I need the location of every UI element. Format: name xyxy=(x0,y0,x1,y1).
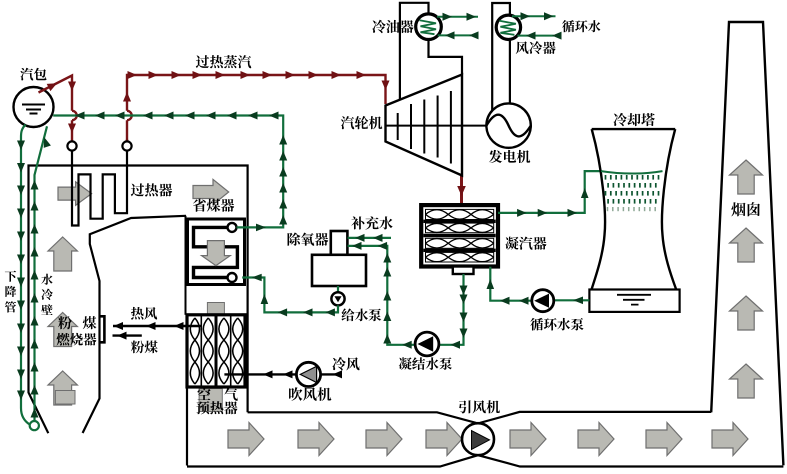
label steam drum xyxy=(20,68,46,81)
riser / water wall pipe (green) xyxy=(35,126,48,421)
label downcomer (vertical) xyxy=(5,271,16,313)
flue gas arrow furnace 2 (behind burner labels) xyxy=(48,313,77,347)
label cooling tower xyxy=(613,113,654,126)
condensate line to deaerator xyxy=(348,246,464,345)
coal line to burner xyxy=(113,334,142,336)
economizer inlet circle xyxy=(228,273,237,282)
condenser hotwell xyxy=(453,267,474,275)
label cold air xyxy=(332,357,359,370)
cooling tower basin xyxy=(589,290,679,312)
deaerator head xyxy=(331,231,348,255)
duct arrows after fan xyxy=(510,423,546,456)
generator xyxy=(486,103,530,147)
feedwater line economizer outlet to drum xyxy=(53,116,283,228)
downcomer pipe (green) xyxy=(21,125,30,425)
oil cooler cooling water in xyxy=(438,34,472,36)
spray water dashes xyxy=(605,175,607,180)
cooling tower shell xyxy=(592,129,677,289)
chimney up arrows xyxy=(730,160,763,194)
label circulating pump xyxy=(530,318,583,331)
cold air line blower to preheater xyxy=(224,373,296,375)
steam turbine xyxy=(386,75,463,176)
label superheater xyxy=(131,183,172,196)
label condensate pump xyxy=(399,357,452,370)
circulating pump xyxy=(532,290,554,312)
ash stub below furnace xyxy=(55,391,75,405)
label makeup water xyxy=(351,216,392,229)
air cooler cooling water out xyxy=(512,15,556,17)
label economizer xyxy=(193,199,234,212)
flue gas arrow furnace 1 xyxy=(48,237,77,271)
steam drum xyxy=(14,87,54,127)
flue gas arrow down economizer xyxy=(202,241,231,266)
induced draft fan xyxy=(462,423,494,455)
label air preheater row2 xyxy=(196,401,237,414)
label burner row1 xyxy=(58,316,72,329)
burner bracket xyxy=(100,316,105,342)
air preheater box with rotor channels xyxy=(187,315,245,387)
downcomer arrows xyxy=(17,141,25,151)
air cooler xyxy=(496,15,520,39)
lower header circle xyxy=(30,421,39,430)
bottom flue duct outline with venturi xyxy=(248,412,712,424)
deaerator tank xyxy=(312,255,366,286)
hot air line to burner xyxy=(113,325,201,327)
label burner row2 xyxy=(57,333,97,346)
flue gas stub below air preheater xyxy=(199,389,222,412)
duct arrows before fan xyxy=(228,423,264,456)
label generator xyxy=(489,150,530,163)
label circulating water xyxy=(562,20,600,32)
chimney xyxy=(711,22,783,465)
spray distribution pipe xyxy=(601,171,663,173)
flue wall below air preheater xyxy=(186,387,188,466)
economizer outlet circle xyxy=(228,223,237,232)
oil cooler duct xyxy=(400,3,462,100)
riser arrows xyxy=(31,408,39,418)
oil cooler cooling water out xyxy=(437,16,478,18)
air cooler cooling water in xyxy=(517,35,554,37)
boiler outer wall (left, top, right) xyxy=(29,166,248,434)
basin water level xyxy=(617,295,651,305)
makeup water line xyxy=(348,237,391,239)
label air cooler xyxy=(516,41,556,54)
flue gas arrow to economizer xyxy=(193,179,229,204)
feedwater line pump to economizer xyxy=(242,278,338,313)
label hot air xyxy=(131,307,157,320)
label coal xyxy=(131,341,158,354)
economizer tubes xyxy=(194,227,238,277)
label chimney xyxy=(731,202,760,216)
label air preheater row1 xyxy=(197,388,210,400)
label feed pump xyxy=(342,308,382,321)
superheated steam line to turbine xyxy=(127,75,386,141)
drum water level symbol xyxy=(22,105,45,114)
basin outlet to circulating pump xyxy=(554,299,590,301)
label oil cooler xyxy=(372,20,413,33)
generator air duct xyxy=(492,3,510,111)
feed pump xyxy=(331,292,344,305)
turbine exhaust steam to condenser xyxy=(460,176,463,205)
label superheated steam xyxy=(196,55,251,68)
oil cooler xyxy=(416,14,442,40)
flue gas arrow through superheater xyxy=(58,182,92,206)
turbine-generator shaft xyxy=(386,125,487,127)
superheater header circle right xyxy=(122,141,131,150)
saturated steam line drum to superheater downpipe xyxy=(39,76,73,142)
blower intake xyxy=(321,373,339,375)
label blower xyxy=(289,387,331,401)
label deaerator xyxy=(288,233,329,246)
forced draft blower xyxy=(296,362,320,386)
furnace inner wall and nose xyxy=(83,216,186,433)
circulating water into condenser xyxy=(490,267,532,301)
superheater coil xyxy=(72,151,127,226)
flue gas arrow furnace 3 xyxy=(48,371,77,405)
convection pass inner wall xyxy=(185,216,187,315)
superheater header circle left xyxy=(67,141,76,150)
condenser cooling water outlet to tower xyxy=(498,171,602,213)
label induced draft fan xyxy=(459,400,500,413)
label condenser xyxy=(505,237,546,250)
condenser xyxy=(421,205,498,266)
economizer box xyxy=(188,219,245,285)
condensate pump xyxy=(415,332,439,356)
label turbine xyxy=(341,116,382,129)
feed pump suction xyxy=(337,286,339,292)
flue gas stub above air preheater xyxy=(207,303,224,315)
label water wall (vertical) xyxy=(41,274,53,315)
